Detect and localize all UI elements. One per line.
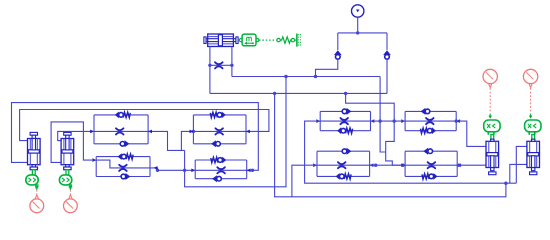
orifice group2 middle (215, 128, 223, 134)
connector stub 4 (529, 132, 535, 135)
orifice group5 middle (340, 118, 348, 124)
junction supply (356, 31, 359, 34)
friction/force element 1 (26, 175, 38, 185)
junction R1-R2 line a (378, 119, 381, 122)
junction bypass right (230, 64, 233, 67)
wire group7 right rail (369, 151, 371, 176)
wire group4 right rail (246, 160, 248, 179)
pressure source (352, 5, 364, 17)
orifice group8 middle (428, 162, 436, 168)
port arrow group8 left (401, 163, 405, 167)
junction A drop (284, 75, 287, 78)
port arrow group2 right (246, 130, 250, 134)
spring check valve group7 bottom (336, 173, 352, 180)
hydraulic cylinder 3 (vertical) (486, 141, 499, 174)
wire group1 middle branch (94, 130, 148, 132)
wire cyl1 bottom loop (12, 103, 259, 171)
orifice group6 middle (426, 118, 434, 124)
wire group5 top branch (320, 110, 370, 112)
wire group6 middle branch (405, 120, 456, 122)
check valve group8 top (423, 148, 432, 155)
signal line 2 (dashed red) (69, 190, 71, 195)
wire group3 top branch (96, 156, 150, 158)
port arrow group3 left (92, 158, 96, 162)
wire staircase up (181, 131, 191, 150)
check valve group6 top (421, 108, 430, 115)
wire group1 right rail (147, 115, 149, 144)
spring check valve group4 top (211, 157, 227, 164)
wire group1 to group2 (148, 131, 185, 150)
wire group7 middle branch (317, 164, 370, 166)
wire group5-group6 link (371, 120, 406, 122)
hydraulic cylinder 1 (vertical) (28, 132, 41, 164)
orifice (bypass) (215, 62, 223, 68)
junction bypass left (208, 64, 211, 67)
port arrow group2 left (190, 130, 194, 134)
wire group6 left rail (404, 111, 406, 130)
wire group3 to group4 (154, 168, 193, 170)
rod end cylinder 2 (64, 165, 71, 170)
wire group8 middle branch (405, 164, 457, 166)
wire group5 left to bottom bus (305, 121, 517, 183)
hydraulic cylinder (horizontal, double-acting) (204, 34, 238, 47)
wire group4 left rail (194, 160, 196, 179)
wire group6 top branch (405, 110, 456, 112)
rod end cylinder 3 (491, 139, 494, 141)
piston rod connector 3 (green) (491, 135, 494, 140)
port arrow group4 left (191, 169, 195, 173)
wire group5 right rail (370, 111, 372, 130)
mass m (239, 34, 259, 46)
wire bus to cyl4 bottom port (510, 164, 527, 183)
wire supply manifold (338, 32, 387, 34)
port arrow group7 right (369, 163, 373, 167)
spring-damper with fixed wall (277, 34, 301, 47)
wire group7 left rail (316, 151, 318, 176)
wire group8 left rail (404, 151, 406, 176)
hydraulic cylinder 4 (vertical) (527, 141, 540, 174)
wire line B (210, 92, 387, 94)
port arrow group4 right (246, 169, 250, 173)
wire group8 bottom branch (405, 175, 457, 177)
wire bypass (210, 64, 232, 66)
check valve group1 bottom (120, 140, 129, 147)
signal line 3 (dashed red) (489, 88, 491, 114)
wire group8 right to cyl3 bottom (457, 164, 486, 166)
check valve (right supply) (383, 50, 391, 59)
connector stub 2 (69, 185, 71, 187)
signal arrow 2 (69, 185, 73, 190)
friction/force element 2 (59, 175, 71, 185)
wire group3 bottom branch (96, 176, 150, 178)
junction line A / left check (314, 75, 317, 78)
wire group2 middle branch (193, 130, 246, 132)
wire line B to R-groups (346, 93, 403, 165)
wire group3 middle branch (96, 160, 153, 168)
wire group3 right rail (149, 157, 151, 177)
wire staircase down (184, 150, 186, 170)
orifice group1 middle (116, 128, 124, 134)
spring check valve group6 bottom (421, 127, 437, 134)
port arrow group5 right (370, 119, 374, 123)
check valve group5 top (342, 108, 351, 115)
junction group3 jog (156, 169, 159, 172)
port arrow group5 left (316, 119, 320, 123)
wire line A to group4 node (185, 77, 286, 187)
wire cyl2 bottom loop (51, 122, 92, 162)
connector stub 1 (36, 185, 38, 187)
signal arrow 1 (35, 185, 39, 190)
port arrow group1 left (90, 130, 94, 134)
wire group7 bottom branch (317, 175, 370, 177)
piston rod connector 4 (green) (532, 135, 535, 140)
signal line 1 (dashed red) (36, 190, 38, 195)
wire group1 left rail (93, 115, 95, 144)
junction group2 left port (192, 130, 195, 133)
junction bottom bus (504, 182, 507, 185)
orifice group4 middle (217, 167, 225, 173)
port arrow group3 right (153, 166, 157, 170)
spring check valve group1 top (115, 112, 131, 119)
check valve (left supply) (334, 50, 342, 59)
check valve group4 bottom (212, 175, 221, 182)
wire group2 top branch (193, 114, 246, 116)
check valve group3 bottom (121, 173, 130, 180)
force source 1 (30, 195, 44, 213)
wire pump outlet (357, 17, 359, 33)
junction group6 right (455, 119, 458, 122)
port arrow group6 left (401, 119, 405, 123)
wire cyl4 top port (516, 146, 527, 183)
wire group4 top branch (195, 159, 247, 161)
wire group4 middle branch (195, 169, 247, 171)
spring check valve group5 bottom (337, 127, 353, 134)
wire cylinder right port drop (231, 47, 233, 77)
check valve group7 top (342, 148, 351, 155)
wire left check to line A (316, 59, 338, 76)
junction group4 left node (183, 169, 186, 172)
wire group7-group8 link (370, 164, 406, 166)
signal arrow 3 (488, 114, 492, 119)
rod end cylinder 1 (30, 165, 37, 170)
junction R3-R4 line (401, 164, 404, 167)
hydraulic cylinder 2 (vertical) (61, 132, 74, 164)
connector stub 3 (488, 132, 494, 135)
force source 3 (483, 69, 497, 87)
orifice group7 middle (338, 162, 346, 168)
orifice group3 middle (119, 165, 127, 171)
friction/force element 4 (525, 120, 541, 132)
wire group2 right rail (245, 115, 247, 144)
wire line A to lower right network (380, 77, 386, 153)
mechanical connection (dashed) (259, 39, 276, 41)
wire group8 top branch (405, 150, 457, 152)
wire group5 bottom branch (320, 130, 370, 132)
port arrow group6 right (456, 119, 460, 123)
wire group4 bottom branch (195, 178, 247, 180)
port arrow group8 right (457, 163, 461, 167)
signal arrow 4 (529, 114, 533, 119)
spring check valve group3 top (118, 153, 134, 160)
wire group6 right to cyl3 top (456, 121, 486, 146)
wire right check to line B (386, 59, 388, 93)
rod end cylinder 4 (532, 139, 535, 141)
junction B drop (273, 92, 276, 95)
spring check valve group8 bottom (422, 173, 438, 180)
wire cylinder left port drop (209, 47, 211, 94)
junction R1-R2 line b (393, 119, 396, 122)
wire to left check valve (337, 33, 339, 50)
wire cyl1 top loop (20, 110, 269, 141)
junction B mid drop (344, 92, 347, 95)
check valve group2 bottom (211, 140, 220, 147)
wire group2 left rail (192, 115, 194, 144)
wire line B to bottom bus (275, 93, 506, 196)
wire group8 right rail (456, 151, 458, 176)
wire group1 bottom branch (94, 143, 148, 145)
wire group7 top branch (317, 150, 370, 152)
wire group7 left drop (292, 165, 317, 197)
wire to right check valve (386, 33, 388, 50)
wire group1 top branch (94, 114, 148, 116)
wire group5 left rail (319, 111, 321, 130)
junction group7 right (374, 164, 377, 167)
wire group3 left rail (95, 157, 97, 177)
piston rod connector 2 (green) (66, 170, 69, 175)
piston rod connector 1 (green) (32, 170, 35, 175)
force source 4 (523, 69, 537, 87)
junction group8 right (457, 164, 460, 167)
port arrow group7 left (313, 163, 317, 167)
signal line 4 (dashed red) (530, 88, 532, 114)
wire group2 bottom branch (193, 143, 246, 145)
wire cyl2 top to group1 (58, 131, 92, 140)
force source 2 (64, 195, 78, 213)
wire line A (232, 76, 380, 78)
friction/force element 3 (484, 120, 500, 132)
wire group6 bottom branch (405, 130, 456, 132)
wire group6 right rail (455, 111, 457, 130)
spring check valve group2 top (210, 112, 226, 119)
wire group5 middle branch (320, 120, 370, 122)
junction group4 right port (251, 169, 254, 172)
port arrow group1 right (148, 130, 152, 134)
